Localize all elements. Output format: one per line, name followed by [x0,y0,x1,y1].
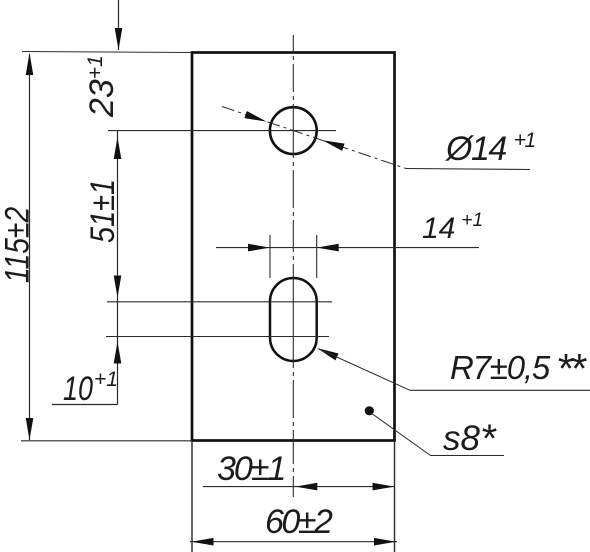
slot lower arc centerline [106,336,329,338]
dimension 14 slot width line [216,235,479,278]
svg-text:115±2: 115±2 [0,206,36,283]
bottom extension line [21,440,192,442]
dimension chain line 23 upper segment [115,0,123,50]
slot upper arc centerline [107,301,332,303]
plate outline [192,53,395,441]
diameter leader line [222,107,530,170]
svg-text:30±1: 30±1 [217,450,284,488]
dimension 115±2 line [26,53,34,440]
right edge lower extension [394,441,396,552]
svg-text:51±1: 51±1 [83,179,122,243]
slot (oblong hole) [270,278,317,361]
vertical centerline [292,35,294,52]
top extension line [22,52,192,53]
svg-text:R7±0,5**: R7±0,5** [450,345,587,392]
svg-text:+1: +1 [94,368,118,391]
svg-text:10: 10 [63,370,93,408]
s8 dot [365,406,374,415]
dimension 30±1 line [203,483,395,491]
s8 leader [371,413,504,456]
svg-text:s8*: s8* [443,417,497,461]
circle horizontal centerline [108,130,336,132]
hole circle (Ø14) [270,107,317,154]
dimension chain line 51/10 segment [52,131,121,405]
left edge lower extension [191,441,193,552]
R7 leader [315,345,590,391]
dimension 60±2 line [190,538,397,546]
svg-text:60±2: 60±2 [265,503,333,541]
